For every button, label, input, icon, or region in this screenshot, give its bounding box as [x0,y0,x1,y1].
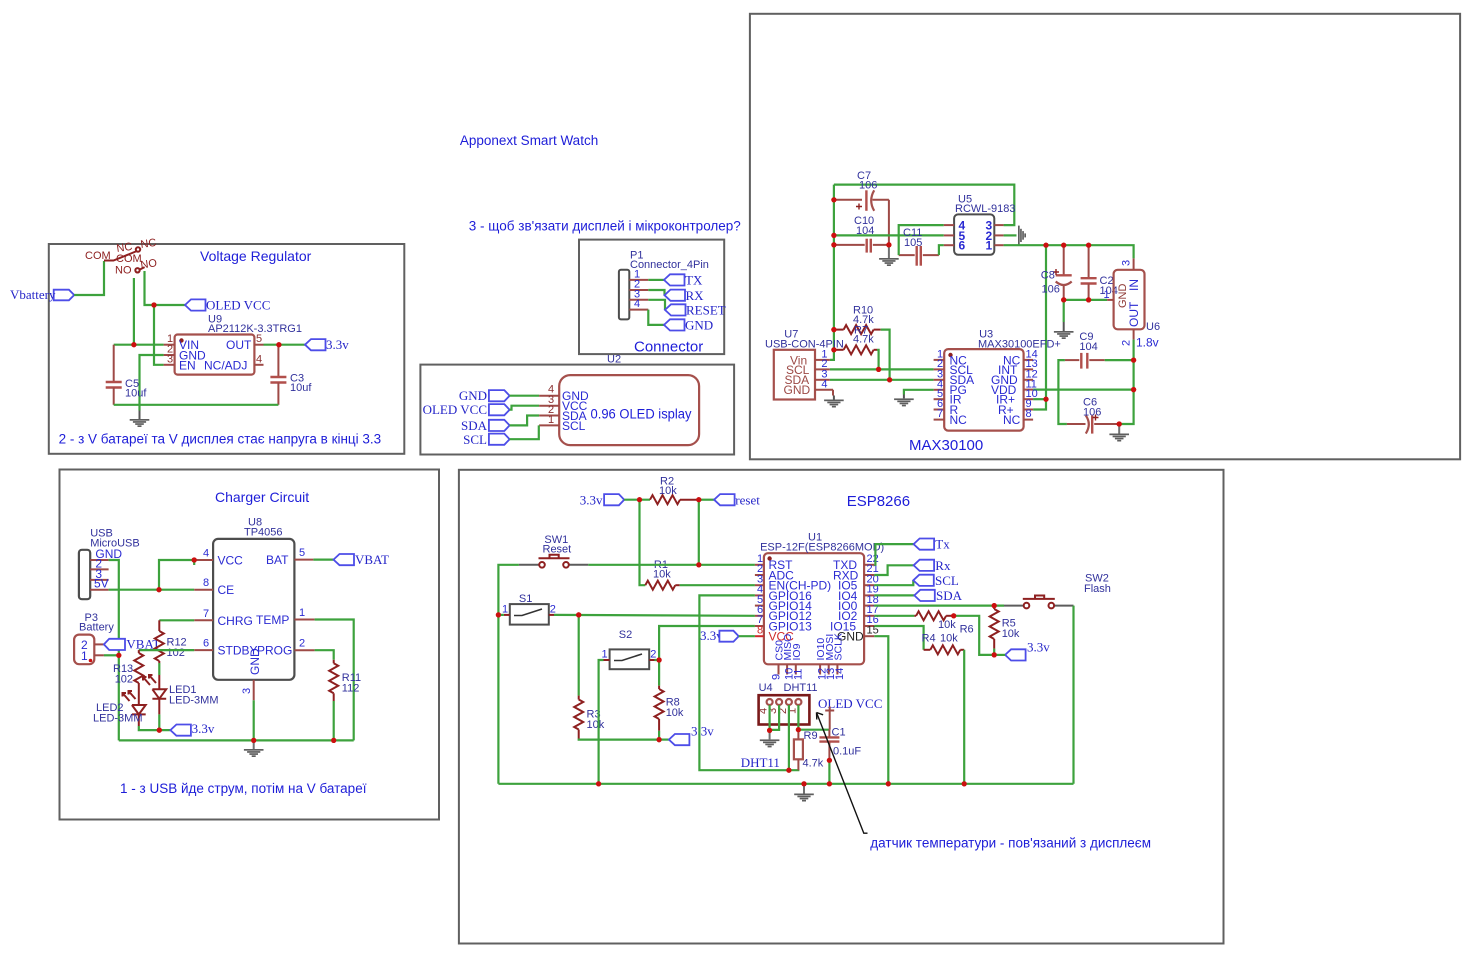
connector P1 Connector_4Pin body [619,250,709,320]
U6 pin 1 (GND, left) [1107,299,1114,301]
svg-text:C8: C8 [1041,270,1055,282]
wire U5 pin5 row [834,234,944,236]
capacitor C7 106 (polarized) [834,170,889,211]
svg-text:3 - щоб зв'язати дисплей і мік: 3 - щоб зв'язати дисплей і мікроконтроле… [469,219,741,234]
callout arrow line [817,713,868,834]
flag TX [664,273,703,288]
flag SCL (display) [463,432,509,447]
svg-text:TP4056: TP4056 [244,527,283,539]
svg-text:1: 1 [502,604,508,616]
U9 pin 2 GND [164,354,175,356]
wire R6 right to 3.3v node [954,616,995,655]
svg-text:4: 4 [203,548,209,560]
svg-text:OLED VCC: OLED VCC [206,298,270,313]
flag reset [714,492,760,507]
wire 3.3v to R2 [624,499,650,501]
junction C1 bottom [827,758,832,763]
wire pin1 to TX flag [648,279,664,281]
junction LED 3.3v node [157,728,162,733]
wire SCL row U7 to U3 [830,368,934,370]
LED2 LED-3MM [93,690,146,726]
svg-text:10k: 10k [1002,628,1020,640]
wire VDD row to OUT rail [1033,389,1134,391]
svg-text:U6: U6 [1146,321,1160,333]
svg-text:VCC: VCC [218,554,244,568]
svg-text:OLED VCC: OLED VCC [818,696,882,711]
svg-text:10k: 10k [938,619,956,631]
flag OLED VCC [185,298,270,313]
wire R4 right down to bottom rail [963,650,965,784]
ground symbol below U7 [824,400,844,408]
capacitor C3 10uf [270,345,312,405]
frame: ESP8266 box [459,470,1224,944]
display module body 0.96 OLED isplay [559,375,699,445]
svg-text:3.3v: 3.3v [691,724,714,739]
capacitor C5 10uf [106,345,148,405]
junction S2 pin1 at rail [596,781,601,786]
svg-text:6: 6 [203,638,209,650]
wire IR+ branch vertical [1033,245,1046,409]
wire GND pin to ground stem [140,355,164,411]
wire U6 OUT down to C9 node [1132,340,1134,361]
wire DHT11 pin2 down to data wire [788,705,790,770]
junction DHT11 gnd node [767,728,772,733]
svg-text:3.3v: 3.3v [326,337,349,352]
wire RXD to Rx flag [874,565,913,575]
wire U7 GND drop [832,390,834,396]
IC U3 MAX30100EFD+ body [944,329,1061,431]
wire U5 pin2 to ground [1004,234,1017,236]
display pin 2 SDA [539,415,559,417]
wire TEMP right and down to rail [315,620,354,741]
pushbutton SW2 Flash [1004,573,1111,609]
wire IR+ pin10 link [1033,398,1046,400]
junction C8 bottom [1061,297,1066,302]
junction P3 pin1 [116,653,121,658]
USB pin 5V [90,589,108,591]
junction C7 left [831,197,836,202]
capacitor C9 104 [1065,331,1105,369]
wire C11 left to U5 pin4 [899,225,944,255]
flag 3.3v (VCC pin8) [700,628,739,643]
wire IO0 to SW2 [874,604,1004,606]
svg-text:BAT: BAT [266,553,289,567]
display pin 1 SCL [539,424,559,426]
svg-text:4: 4 [634,298,640,310]
svg-text:NO: NO [115,265,132,277]
svg-text:4.7k: 4.7k [853,334,874,346]
ground symbol below rail [794,784,814,802]
wire SDA flag to pin2 [510,416,539,426]
display pin 4 GND [539,395,559,397]
junction 5V/VCC branch [156,587,161,592]
U1 bottom pins 9-14 [771,633,846,680]
svg-text:3.3v: 3.3v [1027,640,1050,655]
junction R7 left [831,347,836,352]
svg-text:4.7k: 4.7k [803,758,824,770]
wire P3 pin1 to left rail [104,654,119,656]
wire GPIO16 long branch down to DHT11 data [699,595,799,770]
junction R11 at rail [331,738,336,743]
resistor R4 10k [922,633,965,655]
svg-text:AP2112K-3.3TRG1: AP2112K-3.3TRG1 [208,323,302,335]
P3 pin 2 [94,643,104,645]
P1 pin 4 [629,309,648,311]
U5 pin 4 [944,224,954,226]
svg-text:R6: R6 [960,624,974,636]
wire C1 to bottom rail [828,760,830,784]
wire C9 left bracket down to C6 left [1058,360,1067,424]
U8 pin 1 TEMP [294,619,314,621]
junction R6 right [951,613,956,618]
svg-text:MAX30100: MAX30100 [909,437,983,454]
IC U5 RCWL-9183 body [954,194,1015,255]
wire CHRG to R12 [159,619,194,621]
svg-text:1: 1 [548,414,554,426]
svg-text:ESP8266: ESP8266 [847,493,910,510]
wire reset net down to RST row [698,500,700,565]
P1 pin 2 [629,289,648,291]
junction SCL row [876,367,881,372]
U9 pin 1 VIN [164,344,175,346]
svg-text:TX: TX [685,273,703,288]
wire OLED VCC flag to pin3 [510,406,539,410]
U8 pin 2 PROG [294,649,314,651]
svg-text:SDA: SDA [461,418,488,433]
ground symbol right of U5 pin2 (sideways) [1018,226,1026,246]
svg-text:EN: EN [179,359,196,373]
wire IO2 to R6 [874,615,914,617]
junction overlay (redraw dots above wires) [116,197,1136,786]
U6 pin 2 (OUT, bottom) [1133,329,1135,339]
resistor R1 10k [645,559,679,590]
wire R8 bottom to 3.3v node [658,731,660,740]
svg-text:C1: C1 [832,727,846,739]
svg-text:2: 2 [550,604,556,616]
svg-text:LED-3MM: LED-3MM [169,695,219,707]
svg-text:8: 8 [203,577,209,589]
IC U8 TP4056 body [213,517,294,680]
U5 pin 6 [944,244,954,246]
wire to 3.3v flag [659,738,669,740]
wire SDA row U7 to U3 [830,379,934,381]
U3 left pins 1-7 [934,349,975,428]
svg-text:10k: 10k [659,485,677,497]
IC U9 AP2112K-3.3TRG1 body [175,314,302,375]
flag OLED VCC (display) [423,402,510,417]
wire R3 bottom to 3.3v node [579,739,659,740]
junction C10 left [831,242,836,247]
wire Vbattery to switch COM [74,261,104,295]
flag VBAT (battery input) [104,637,161,652]
resistor R13 102 [113,650,143,690]
wire C8 gnd drop [1063,300,1065,322]
svg-text:Connector_4Pin: Connector_4Pin [630,259,709,271]
USB pin 3 [90,579,108,581]
U8 pin 5 BAT [294,559,313,561]
junction at VCC stub [192,557,197,562]
svg-text:VBAT: VBAT [355,552,389,567]
svg-text:8: 8 [1026,408,1032,420]
junction C2 bottom [1086,297,1091,302]
wire OLED VCC node down to EN pin [154,305,164,365]
U9 pin 4 NC/ADJ [254,364,263,366]
wire IO5 to SCL flag [874,580,913,585]
svg-text:1: 1 [986,239,993,253]
resistor R10 4.7k [834,305,881,335]
wire R2 right to reset flag [699,499,714,501]
svg-text:Apponext Smart Watch: Apponext Smart Watch [460,133,598,148]
U1 right pins 22-15 [830,553,879,644]
flag Tx [914,537,951,552]
U9 pin 5 OUT [254,344,263,346]
flag RX [665,288,705,303]
svg-text:104: 104 [856,225,874,237]
wire IO4 to SDA flag [874,594,914,596]
power symbol OLED VCC [818,696,882,730]
wire 3.3v to VCC [739,635,755,637]
flag VBAT (BAT output) [334,552,390,567]
wire OUT rail down [1119,360,1133,424]
flag 3.3v (pullup top) [580,492,624,507]
ground symbol below PG [894,398,914,406]
resistor R7 4.7k [834,325,877,355]
junction 1.8v rail at C2 [1086,243,1091,248]
flag GND (display) [459,388,510,403]
flag SDA [914,588,962,603]
U5 pin 1 [994,244,1003,246]
svg-text:3: 3 [241,688,253,694]
junction VDD rail [1131,387,1136,392]
wire DHT11 pin4 to ground [768,705,770,730]
wire TXD to Tx flag [874,544,913,565]
connector P3 Battery body [74,612,114,664]
svg-text:2: 2 [650,649,656,661]
svg-text:R9: R9 [804,730,818,742]
ground symbol below DHT11 [760,730,780,747]
wire pin4 to GND flag [648,310,664,325]
USB pin 2 [90,568,108,570]
wire VIN node horizontal [114,344,164,346]
svg-text:MAX30100EFD+: MAX30100EFD+ [978,339,1061,351]
svg-text:NC: NC [140,237,157,251]
wire U5 pin1 1.8v rail to U6 IN [1004,245,1134,258]
junction pin5 row left [831,233,836,238]
svg-text:3: 3 [1121,260,1133,266]
wire STDBY to R13 [139,649,194,651]
pushbutton SW1 Reset [519,534,588,568]
svg-text:6: 6 [959,239,966,253]
U9 pin 3 EN [164,364,175,366]
frame: Connector box [579,240,724,355]
U5 pin 3 [994,224,1003,226]
flag 3.3v (VR output) [305,337,349,352]
svg-text:Battery: Battery [79,622,114,634]
svg-text:1 - з USB йде струм, потім на: 1 - з USB йде струм, потім на V батареї [120,781,367,796]
wire PROG to R11 [315,650,334,660]
svg-text:8: 8 [757,624,763,636]
junction data/rail gnd tap [801,781,806,786]
U5 pin 5 [944,234,954,236]
wire C11 right to U5 pin6 [939,245,944,255]
wire SW2 right down to bottom rail [1072,606,1074,784]
junction at OLED VCC node [151,302,156,307]
svg-text:SCLK: SCLK [833,633,845,660]
connector U7 USB-CON-4PIN body [765,329,844,400]
wire S2 pin2 up to GPIO13 [655,626,755,660]
svg-text:Reset: Reset [543,544,572,556]
junction IR+ node [1043,397,1048,402]
P1 pin 1 [629,279,648,281]
resistor R3 10k [574,696,605,739]
U8 pin 3 GND (bottom) [253,680,255,701]
svg-text:0.96 OLED isplay: 0.96 OLED isplay [591,407,692,422]
svg-text:1: 1 [299,607,305,619]
sensor U4 DHT11 body [758,682,818,725]
svg-text:2: 2 [1121,340,1133,346]
wire SW1 right to RST pin [588,564,755,566]
wire top loop C7 to U5 pin3 [834,185,1014,226]
wire bottom gnd rail C5 to C3 [114,404,279,406]
resistor R5 10k [990,606,1020,649]
svg-text:CE: CE [218,583,235,597]
svg-text:COM: COM [116,253,142,265]
svg-text:reset: reset [735,492,760,507]
junction S1 pin1 at left rail [496,612,501,617]
wire R10 right to SDA row [881,330,890,380]
wire U3 PG to ground [904,390,934,395]
U6 pin 3 (IN, top) [1133,258,1135,269]
flag Rx [914,558,951,573]
flag GND (connector) [664,318,713,333]
wire IO15 to R4 [874,626,923,650]
wire LED node to 3.3v flag [139,726,171,730]
svg-text:SDA: SDA [936,588,963,603]
resistor R6 10k [914,611,973,635]
capacitor C2 104 [1081,245,1118,300]
svg-text:U2: U2 [607,354,621,366]
wire SCL flag to pin1 [510,425,539,439]
svg-text:GND: GND [784,383,811,397]
svg-text:10k: 10k [940,633,958,645]
wire LED1 to 3.3v node [158,714,160,730]
svg-text:SCL: SCL [463,432,487,447]
svg-text:106: 106 [859,180,877,192]
capacitor C1 0.1uF [819,727,861,761]
ground symbol charger [244,740,264,757]
junction C6 right / ground [1117,421,1122,426]
capacitor C11 105 [899,227,939,266]
regulator U6 body (1.8v LDO) [1114,270,1160,333]
U7 pin 4 GND [815,389,833,391]
wire R2 left down to R1 [640,500,646,586]
junction at OUT/C3 [276,342,281,347]
IC U1 ESP-12F(ESP8266MOD) body [760,532,884,665]
frame: Charger Circuit box [60,470,440,820]
svg-text:GND: GND [248,648,262,675]
U8 pin 7 CHRG [194,619,213,621]
capacitor C6 106 (polarized) [1067,397,1119,434]
svg-text:PROG: PROG [257,644,292,658]
svg-text:2 - з V батареї та V дисплея с: 2 - з V батареї та V дисплея стає напруг… [59,432,382,447]
connector USB MicroUSB body [79,528,140,600]
wire C9 right to U6 OUT node [1105,359,1134,361]
svg-text:4: 4 [256,354,262,366]
wire pin1 node to C1 [798,729,829,731]
junction R10 left [831,327,836,332]
ground symbol below C6 [1109,424,1129,442]
svg-text:OUT: OUT [1127,301,1141,327]
wire S2 pin1 down to bottom rail [599,660,604,784]
flag RESET [665,303,726,318]
junction GND at rail [886,781,891,786]
svg-text:S2: S2 [619,629,632,641]
svg-text:5: 5 [299,547,305,559]
wire pin3 to RESET flag [648,300,665,310]
junction S2 pin2 [657,657,662,662]
svg-text:R4: R4 [922,633,936,645]
svg-text:GND: GND [459,388,487,403]
wire SW1 left down to S1 [498,565,519,784]
svg-text:DHT11: DHT11 [784,682,818,694]
svg-text:102: 102 [167,647,185,659]
svg-text:SCL: SCL [935,573,959,588]
junction C1 at rail [827,781,832,786]
U7 pin 1 Vin [815,359,830,361]
switch SW relay contacts (COM/NC/NO) [85,237,158,277]
junction R5 3.3v node [992,652,997,657]
frame: MAX30100 box [750,14,1460,460]
wire S2 pin2 down to R8 [658,660,660,686]
svg-text:9: 9 [771,674,783,680]
flag SCL [913,573,959,588]
svg-text:Charger Circuit: Charger Circuit [215,489,309,505]
svg-text:3: 3 [167,354,173,366]
svg-text:11: 11 [792,669,804,680]
svg-text:NO: NO [140,257,158,271]
junction S1 pin2 branch [576,612,581,617]
USB pin GND [90,559,108,561]
svg-text:Flash: Flash [1084,583,1111,595]
frame: U2 box [420,365,734,455]
U8 pin 8 CE [194,589,213,591]
svg-text:SCL: SCL [562,419,586,433]
U8 pin 4 VCC [194,559,213,561]
svg-text:7: 7 [203,608,209,620]
resistor R12 102 [155,620,187,663]
ground symbol below C10 [879,245,899,266]
svg-text:10uf: 10uf [290,382,312,394]
svg-text:105: 105 [904,237,922,249]
wire 5V row to CE [109,589,195,591]
svg-text:Tx: Tx [935,537,950,552]
junction DHT11 pin1 / R9 top [796,727,801,732]
junction IO0/R5 [992,603,997,608]
resistor R8 10k [655,686,684,731]
svg-text:NC: NC [950,413,968,427]
resistor R9 4.7k (box style) [794,730,824,771]
wire left vertical rail (Vin net) [830,185,834,360]
svg-text:CHRG: CHRG [218,614,253,628]
svg-text:Connector: Connector [634,339,703,356]
svg-text:U4: U4 [759,682,773,694]
capacitor C8 106 (polarized) [1041,245,1072,300]
svg-text:Voltage Regulator: Voltage Regulator [200,248,312,264]
wire GND pin15 down to rail [874,636,888,784]
svg-text:TEMP: TEMP [256,613,289,627]
svg-text:COM: COM [85,250,111,262]
svg-text:106: 106 [1042,284,1060,296]
